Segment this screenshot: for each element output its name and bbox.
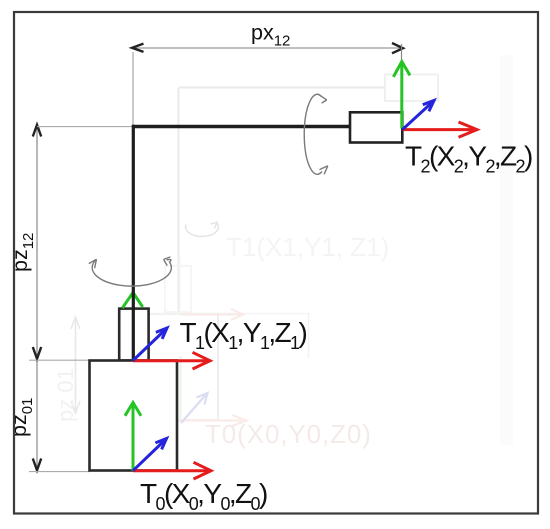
pz dimension vertical line [36,125,38,470]
rotation arc joint1 right arrowhead [164,257,171,266]
T1 green z-arrowhead [122,293,142,309]
faint scan band right [500,55,513,445]
svg-text:T0(X0,Y0,Z0): T0(X0,Y0,Z0) [205,419,372,449]
ghost joint box [165,266,191,312]
ghost T0 blue arrow [181,393,208,423]
ghost horizontal link [179,87,385,89]
T1 red x-axis [133,352,210,369]
pz01 bottom arrowhead [33,459,41,471]
T2 red x-axis [403,122,478,137]
svg-text:pz 01: pz 01 [53,368,78,422]
px12 dimension line [133,47,401,49]
vertical link [132,125,135,359]
T2 blue y-axis [403,101,435,130]
pz12 top arrowhead [33,125,41,137]
ghost right vertical line [308,314,310,359]
tick line top [37,126,133,128]
rotation arc joint2 top arrowhead [317,94,326,103]
ghost T1 green z-arrow [179,256,181,314]
tick line middle [29,359,89,361]
ghost T0 green arrow [179,356,181,420]
ghost end-effector box [385,75,438,102]
horizontal link [132,125,350,128]
base box [90,361,178,471]
px12 left extension line [132,52,134,125]
rotation arc joint1 [92,259,171,286]
T0 blue y-axis [133,439,167,471]
rotation arc joint2 bottom arrowhead [320,166,328,175]
rotation arc joint1 left arrowhead [89,259,97,268]
svg-text:T1(X1,Y1, Z1): T1(X1,Y1, Z1) [226,232,389,262]
end-effector box [350,112,402,142]
rotation arc joint2 [304,94,322,174]
px12 right extension line [401,44,403,60]
T0 red x-axis [133,462,211,479]
ghost T0 red x-arrow [178,415,247,426]
T1 blue y-axis [133,328,167,361]
tick line bottom [29,471,90,473]
ghost rotation arc [185,223,218,237]
ghost pz dimension line [71,317,80,413]
ghost T1 red x-arrow [181,309,243,320]
ghost vertical link [178,88,180,313]
joint box J1 [119,309,148,361]
T0 green z-axis [125,403,141,471]
px12 right arrowhead [392,43,403,53]
px12 left arrowhead [132,44,144,52]
pz12 bottom arrowhead [33,347,41,359]
T2 green z-axis [393,62,410,129]
ghost base box [143,314,218,420]
ghost base box top line [148,313,310,315]
